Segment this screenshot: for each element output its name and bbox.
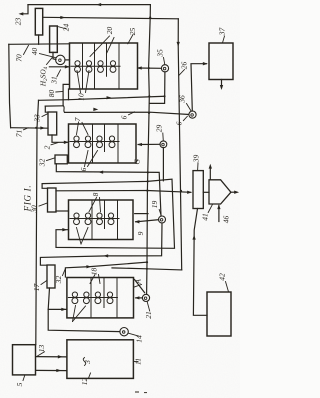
wire: line 70 feed into bank 20 bbox=[9, 43, 70, 46]
conditioner 17 bbox=[47, 265, 55, 288]
leader 11 bbox=[134, 361, 138, 363]
wire: bank 20 left wall extension bbox=[68, 89, 70, 100]
tank 11 bbox=[67, 340, 133, 379]
svg-text:42: 42 bbox=[218, 273, 227, 281]
svg-text:6: 6 bbox=[79, 167, 88, 171]
leader 26 bbox=[179, 70, 185, 76]
leaders 20 bbox=[90, 36, 110, 57]
wire: conditioner 30 outlet into bank 8 bbox=[56, 210, 69, 212]
leader 29 bbox=[162, 133, 165, 141]
junction dots bbox=[149, 16, 151, 18]
pump 35 bbox=[161, 65, 168, 72]
leaders 8 bbox=[89, 198, 97, 212]
svg-text:7: 7 bbox=[73, 117, 82, 121]
wire: hook outlet at top left bbox=[23, 5, 29, 14]
wire: top recycle line to hopper 23 bbox=[28, 4, 150, 6]
svg-text:9: 9 bbox=[136, 231, 145, 235]
leader A bbox=[134, 285, 141, 288]
paper specks bbox=[135, 391, 139, 392]
pump 14 bbox=[120, 328, 128, 336]
wire: pump 29 suction from bank 7 bbox=[138, 143, 160, 145]
leader 40 bbox=[40, 54, 56, 58]
wire: swan neck into line B bbox=[63, 106, 65, 113]
leader 37 bbox=[223, 36, 225, 43]
box 5 bbox=[13, 345, 36, 375]
wire: drop from hopper 23 to line 70 bbox=[38, 35, 40, 44]
leader 21 bbox=[147, 302, 150, 311]
box 37 bbox=[209, 43, 233, 80]
separator hopper 41 bbox=[209, 180, 231, 204]
wire: pump 40 stub to bank 20 wall bbox=[65, 59, 70, 61]
leader 13 bbox=[37, 352, 45, 357]
wire: left margin riser 70-71 bbox=[9, 44, 11, 127]
leader 71 bbox=[24, 128, 29, 130]
svg-text:36: 36 bbox=[178, 95, 187, 104]
leaders under bank 18 bbox=[73, 306, 76, 322]
leader 31 bbox=[57, 70, 61, 77]
leaders under bank 8 bbox=[77, 228, 82, 245]
leader H2SO4 bbox=[47, 58, 53, 65]
wire: hopper 24 down to pump 40 bbox=[53, 52, 56, 59]
agitator squiggle in tank 11 bbox=[83, 358, 86, 366]
svg-text:FIG I.: FIG I. bbox=[23, 185, 33, 213]
wire: feed line 71 bbox=[11, 127, 48, 130]
svg-text:31: 31 bbox=[50, 76, 59, 85]
leader 6 bbox=[183, 116, 187, 120]
svg-text:3: 3 bbox=[83, 360, 92, 365]
leader 14 bbox=[128, 333, 139, 336]
wire: feed 46 into separator bbox=[218, 206, 220, 222]
wire: conditioner 17 outlet into bank 18 bbox=[48, 288, 67, 309]
flotation bank 7 bbox=[69, 124, 137, 163]
svg-text:5: 5 bbox=[15, 382, 24, 386]
svg-text:19: 19 bbox=[150, 201, 159, 209]
svg-text:6: 6 bbox=[175, 121, 184, 125]
svg-text:18: 18 bbox=[90, 268, 99, 276]
hopper 23 bbox=[35, 8, 42, 35]
wire: pump 35 suction from bank 20 bbox=[138, 67, 162, 69]
wire: main bus (stream 25) bbox=[147, 5, 151, 295]
wire: pump 40 discharge into bank 20 bbox=[49, 66, 69, 68]
leader 80 bbox=[56, 91, 63, 94]
svg-text:29: 29 bbox=[155, 125, 164, 133]
flotation bank 8 bbox=[69, 200, 134, 240]
svg-text:17: 17 bbox=[32, 284, 41, 292]
svg-text:71: 71 bbox=[15, 130, 24, 138]
leader 32 bbox=[47, 158, 56, 161]
leaders 18 bbox=[90, 275, 95, 284]
leaders 6 bbox=[85, 151, 89, 167]
pump 36 bbox=[189, 111, 196, 118]
leader 2 bbox=[51, 143, 58, 145]
flotation bank 18 bbox=[67, 278, 134, 318]
conditioner 30 bbox=[48, 188, 57, 212]
svg-text:41: 41 bbox=[201, 213, 210, 221]
wire: separator vent bbox=[209, 167, 211, 180]
wire: pump 21 suction from bank 18 bbox=[136, 297, 143, 299]
svg-text:80: 80 bbox=[47, 90, 56, 98]
wire: filter 39 to separator bbox=[203, 191, 209, 193]
svg-text:13: 13 bbox=[37, 345, 46, 353]
leader 36 bbox=[187, 104, 192, 111]
wire: pump 19 suction from bank 8 bbox=[136, 220, 159, 222]
svg-text:32: 32 bbox=[54, 276, 63, 285]
wire: bank 18 tails to pump 14 bbox=[48, 309, 120, 331]
wire: filter 39 underflow to box 42 bbox=[193, 209, 207, 316]
wire: bus 26 bbox=[178, 19, 182, 270]
filter 39 bbox=[193, 171, 203, 209]
wire: line B tee into conditioner 33 bbox=[45, 106, 48, 112]
svg-text:24: 24 bbox=[62, 24, 71, 32]
wire: pump 29 line to conditioner 30 and bank 8 return bbox=[42, 179, 174, 248]
wire: pump 19 discharge to conditioner 17 bbox=[40, 223, 162, 265]
wire: box 5 outlet upper into tank 11 bbox=[36, 356, 67, 358]
wire: feed line into bank 18 bbox=[65, 262, 147, 277]
leader 6 bbox=[129, 112, 135, 115]
leader 32 bbox=[63, 269, 66, 276]
svg-text:35: 35 bbox=[156, 49, 165, 58]
leader 17 bbox=[41, 281, 47, 285]
leader 35 bbox=[164, 58, 165, 65]
svg-text:23: 23 bbox=[14, 18, 23, 26]
leader 42 bbox=[226, 282, 229, 292]
paper background bbox=[0, 0, 240, 398]
wire: tails bus to box 5 bbox=[36, 100, 39, 344]
junction bbox=[35, 127, 37, 129]
leader 24 bbox=[58, 27, 67, 30]
svg-text:2: 2 bbox=[43, 145, 52, 149]
wire: conditioner 33 outlet into bank 7 bbox=[52, 135, 69, 142]
pump 40 bbox=[56, 55, 65, 64]
flotation bank 20 bbox=[70, 43, 138, 89]
wire: box 32 outlet to pump 19 bbox=[56, 164, 161, 216]
leader C bbox=[135, 160, 138, 163]
svg-text:26: 26 bbox=[180, 62, 189, 70]
box 42 bbox=[207, 292, 231, 336]
leader 33 bbox=[42, 114, 48, 117]
svg-text:39: 39 bbox=[192, 155, 201, 164]
leader 70 bbox=[24, 45, 29, 54]
hopper 24 bbox=[50, 26, 58, 52]
svg-text:6: 6 bbox=[120, 115, 129, 119]
wire: pump 35 discharge to main bus bbox=[150, 72, 165, 104]
wire: bank 18 connector to pump 21 bbox=[135, 280, 145, 293]
wire: line B to pump 36 bbox=[45, 105, 63, 107]
leader 5 bbox=[23, 375, 25, 380]
pump 21 bbox=[142, 294, 149, 301]
wire: pump 29 discharge down bbox=[162, 148, 164, 181]
wire: box 5 outlet lower into tank 11 bbox=[36, 369, 67, 371]
wire: bank 8 froth line to filter 39 bbox=[56, 191, 191, 193]
leader 19 bbox=[159, 210, 161, 216]
leaders 10 bbox=[77, 71, 81, 93]
wire: overflow line 23 to bus bbox=[43, 17, 179, 19]
wire: tee into conditioner 30 bbox=[42, 184, 47, 189]
wire: box 37 underflow bbox=[221, 80, 223, 88]
svg-text:40: 40 bbox=[30, 48, 39, 56]
svg-text:70: 70 bbox=[15, 54, 24, 62]
wire: bus 26 elbow to bank 8 feed bbox=[112, 268, 182, 270]
wire: bank 8 connector to bus bbox=[135, 213, 148, 215]
leader 39 bbox=[197, 163, 199, 170]
pump 19 bbox=[159, 216, 166, 223]
conditioner 33 bbox=[48, 112, 57, 135]
wire: pump 36 riser to box 37 bbox=[191, 64, 207, 111]
leaders 7 bbox=[77, 122, 79, 135]
leader 41 bbox=[208, 204, 212, 212]
wire: bank 20 discharge elbow 80 bbox=[63, 84, 68, 105]
svg-text:8: 8 bbox=[91, 192, 100, 196]
wire: separator overflow out bbox=[231, 191, 237, 193]
svg-text:20: 20 bbox=[105, 27, 114, 35]
discharge box 32 of bank 7 bbox=[55, 155, 67, 164]
leader 25 bbox=[128, 35, 133, 44]
svg-text:46: 46 bbox=[222, 216, 231, 224]
svg-text:12: 12 bbox=[80, 378, 89, 386]
svg-text:21: 21 bbox=[144, 311, 153, 319]
wire: bank 20 tails line A bbox=[39, 96, 165, 100]
leader 30 bbox=[39, 203, 47, 206]
svg-text:32: 32 bbox=[38, 159, 47, 168]
leader 12 bbox=[89, 373, 91, 378]
pump 29 bbox=[160, 141, 167, 148]
svg-text:37: 37 bbox=[218, 28, 227, 37]
svg-text:25: 25 bbox=[128, 28, 137, 36]
svg-text:33: 33 bbox=[33, 114, 42, 123]
